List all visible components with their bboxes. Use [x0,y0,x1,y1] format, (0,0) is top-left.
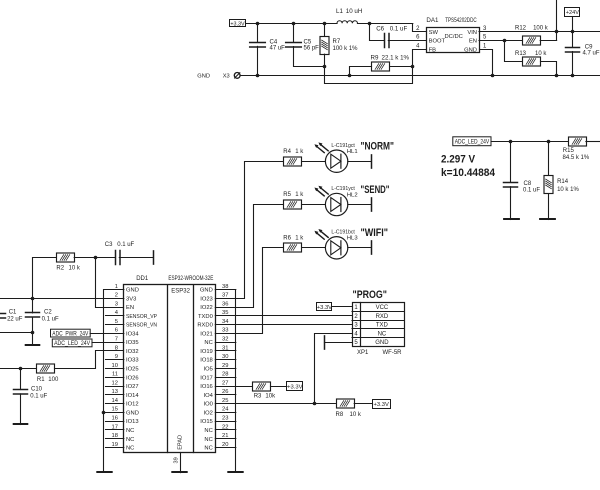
wire ADC_LED_24V net [491,141,568,143]
svg-text:L-C191bct: L-C191bct [331,229,355,235]
svg-text:26: 26 [222,389,228,395]
wire R1 left [0,368,36,370]
wire R13 right to GND rail [541,62,557,76]
svg-text:0.1 uF: 0.1 uF [523,187,540,193]
svg-text:IO4: IO4 [203,393,213,399]
wire FB loop [325,50,427,84]
svg-text:+3.3V: +3.3V [374,402,389,408]
svg-text:NC: NC [126,437,134,443]
wire C5 top lead [293,23,295,42]
svg-text:R7: R7 [333,39,341,45]
svg-text:19: 19 [112,442,118,448]
wire R4 to HL1 [302,161,326,163]
node rail/C4 [256,22,260,26]
inductor L1 [337,21,357,24]
connector XP1 WF-5R [353,303,405,347]
svg-text:GND: GND [464,47,477,53]
svg-text:TPS54202DDC: TPS54202DDC [445,18,477,24]
node FB/R9 [411,65,415,69]
node EN/R13 [503,39,507,43]
pin 37 IO23 [215,298,236,300]
ground below R14 [540,218,555,220]
svg-text:ESP32-WROOM-32E: ESP32-WROOM-32E [168,276,213,282]
node rail/C5 [292,22,296,26]
connector row line [352,337,404,339]
svg-text:IO27: IO27 [126,384,139,390]
node GND/R13 [555,74,559,78]
wire NC pin4 down to IO0 net [315,334,353,404]
svg-text:IO25: IO25 [126,367,139,373]
pin 39 EPAD [180,453,182,473]
svg-text:IO26: IO26 [126,375,139,381]
svg-text:SW: SW [429,30,439,36]
svg-text:3V3: 3V3 [126,296,136,302]
svg-text:+3.3V: +3.3V [317,305,332,311]
wire DA1 GND pin to rail [480,50,493,76]
svg-text:29: 29 [222,363,228,369]
svg-text:X3: X3 [223,73,230,79]
svg-text:WF-5R: WF-5R [383,350,403,356]
svg-text:C10: C10 [31,386,43,392]
connector row line [352,320,404,322]
wire pin38 GND down right side [216,290,236,473]
node 3V3/C2/R2 [31,297,35,301]
svg-text:NC: NC [126,446,134,452]
connector row line [352,328,404,330]
wire C4 bottom lead [257,46,259,75]
net stub bar C3 [153,251,155,264]
power flag +3.3V at PROG VCC [317,303,333,312]
svg-text:L-C191gct: L-C191gct [331,143,355,149]
power flag +24V [565,8,580,17]
node L1/C6 [368,22,372,26]
wire HL3 cathode out [348,247,371,249]
svg-text:R6: R6 [283,235,291,241]
pin 13 IO14 [106,394,124,396]
pin 32 NC [215,342,236,344]
wire C4 top lead [257,23,259,42]
wire +3.3V rail top [246,23,338,25]
wire flag to VCC pin1 [332,306,352,308]
net label ADC_LED_24V (left) [52,339,92,347]
wire +24V down through VIN to C9 [572,17,574,47]
pin 16 IO13 [106,421,124,423]
node C2 bottom [31,331,35,335]
svg-text:C1: C1 [9,310,17,316]
svg-text:IO0: IO0 [203,402,212,408]
wire R6 to HL3 [302,247,326,249]
resistor R4 [284,157,302,166]
svg-text:2.297 V: 2.297 V [441,153,476,165]
svg-text:"WIFI": "WIFI" [361,227,389,239]
pin 24 IO2 [215,412,236,414]
svg-text:23: 23 [222,416,228,422]
resistor R3 [253,382,271,391]
wire EN to R12 [479,40,522,42]
svg-text:10 k: 10 k [350,412,362,418]
svg-text:15: 15 [112,407,118,413]
svg-text:"SEND": "SEND" [361,184,390,196]
svg-text:GND: GND [126,410,139,416]
wire VIN line [479,31,600,33]
svg-text:TXD: TXD [376,323,389,329]
capacitor C9 [566,48,580,53]
chip inner divider left [167,285,169,453]
svg-text:HL1: HL1 [347,149,358,155]
svg-text:BOOT: BOOT [429,39,446,45]
pin 17 NC [106,429,124,431]
svg-text:0.1 uF: 0.1 uF [390,25,408,32]
ground below EPAD [172,471,186,473]
resistor R15 [569,137,587,146]
svg-text:L1: L1 [336,8,343,15]
pin 1 GND [106,289,124,291]
pin 19 NC [106,447,124,449]
wire net from ESP32 up to R6 [236,248,284,334]
svg-text:10 uH: 10 uH [346,8,363,15]
node VIN/+24V [571,30,575,34]
svg-text:37: 37 [222,293,228,299]
svg-text:36: 36 [222,301,228,307]
svg-text:NC: NC [204,428,212,434]
pin 38 GND [215,289,236,291]
pin 22 NC [215,429,236,431]
svg-text:+3.3V: +3.3V [287,384,302,390]
svg-text:IO5: IO5 [203,367,212,373]
power flag +3.3V at R8 [373,400,391,409]
node R7/C5/FB-loop [323,65,327,69]
net label ADC_LED_24V (right) [453,137,491,146]
svg-text:R14: R14 [557,179,569,185]
svg-text:1 k: 1 k [295,192,304,198]
wire C3 right [119,257,153,259]
svg-text:27: 27 [222,380,228,386]
wire TXD0 pin35 to PROG RXD [215,315,352,317]
net stub bar NORM [371,155,373,168]
wire HL1 cathode out [348,161,371,163]
svg-text:8: 8 [115,345,118,351]
wire C5 bottom to R7 bottom [294,47,325,67]
power flag +3.3V output rail [230,20,246,28]
svg-text:11: 11 [112,372,118,378]
node rail/R7 [323,22,327,26]
wire C10 bottom lead [20,394,22,425]
net stub bar SEND [371,198,373,211]
ground left of ESP32 [97,471,111,473]
node pin15 GND [102,411,106,415]
node R14 [547,140,551,144]
svg-text:7: 7 [115,337,118,343]
svg-text:47 uF: 47 uF [270,46,286,52]
pin 27 IO16 [215,386,236,388]
svg-text:100 k: 100 k [533,26,549,32]
wire C6 to BOOT [388,40,426,42]
wire R7 bottom lead [324,54,326,66]
svg-text:31: 31 [222,345,228,351]
svg-text:22 uF: 22 uF [7,316,23,322]
wire net from ESP32 up to R5 [236,205,284,308]
pin 36 IO22 [215,307,236,309]
svg-text:R3: R3 [254,394,262,400]
svg-text:33: 33 [222,328,228,334]
pin 10 IO25 [106,368,124,370]
svg-text:100: 100 [48,377,59,383]
svg-text:SENSOR_VN: SENSOR_VN [126,323,157,329]
wire net from ESP32 up to R4 [236,162,284,299]
ground below C2 [26,344,40,346]
svg-text:RXD: RXD [376,314,389,320]
svg-text:GND: GND [375,340,389,346]
svg-text:16: 16 [112,416,118,422]
pin 31 IO19 [215,350,236,352]
svg-text:9: 9 [115,354,118,360]
capacitor C2 [26,313,40,318]
resistor R9 [372,62,390,71]
IC DD1 ESP32-WROOM-32E [124,285,216,453]
svg-text:IO23: IO23 [200,296,213,302]
pin 5 SENSOR_VN [106,324,124,326]
svg-text:IO16: IO16 [200,384,213,390]
node VIN/R12 [555,30,559,34]
svg-text:24: 24 [222,407,229,413]
wire C8 top lead [510,141,512,182]
LED HL3 L-C191bct [314,229,347,259]
svg-text:R4: R4 [283,149,291,155]
svg-text:IO18: IO18 [200,358,213,364]
capacitor C10 [14,390,28,395]
capacitor C5 [286,43,302,48]
svg-text:0.1 uF: 0.1 uF [42,316,59,322]
node GND/DA1 pin1 [491,74,495,78]
svg-text:XP1: XP1 [357,350,369,356]
svg-text:NC: NC [378,331,387,337]
svg-text:GND: GND [200,288,213,294]
svg-text:10 k: 10 k [535,51,547,57]
svg-text:28: 28 [222,372,228,378]
svg-text:C2: C2 [44,310,52,316]
svg-text:GND: GND [126,288,139,294]
wire C6 branch [370,24,385,41]
svg-text:100 k 1%: 100 k 1% [333,46,359,52]
wire R5 to HL2 [302,204,326,206]
svg-text:IO17: IO17 [200,375,213,381]
node R1/C10 [19,367,23,371]
wire pin1 GND down left side [104,290,124,473]
svg-text:IO14: IO14 [126,393,139,399]
svg-text:C3: C3 [105,242,113,248]
svg-text:14: 14 [112,398,119,404]
pin 11 IO26 [106,377,124,379]
pin 29 IO5 [215,368,236,370]
net stub bar PROG GND [324,336,326,349]
LED HL2 L-C191yct [314,186,347,216]
svg-text:HL2: HL2 [347,192,358,198]
pin 12 IO27 [106,386,124,388]
capacitor C1 [0,314,6,319]
node C8 [509,140,513,144]
resistor R5 [284,200,302,209]
svg-text:DD1: DD1 [136,276,149,282]
connector divider [360,303,362,347]
wire R12 right [540,40,556,42]
wire C8 bottom lead [510,187,512,220]
wire GND link C1-C2 [0,332,32,334]
svg-text:R1: R1 [37,377,45,383]
pin 18 NC [106,438,124,440]
svg-text:IO33: IO33 [126,358,139,364]
pin 9 IO33 [106,359,124,361]
wire C9 bottom [572,52,574,76]
svg-text:"PROG": "PROG" [353,289,388,301]
wire R14 bottom lead [548,194,550,220]
svg-text:22: 22 [222,424,228,430]
pin 15 GND [106,412,124,414]
resistor R6 [284,243,302,252]
wire ADC_PWR_24V to pin 6 [90,333,124,335]
svg-text:R15: R15 [563,148,575,154]
wire R14 top lead [548,141,550,176]
pin 4 SENSOR_VP [106,315,124,317]
resistor R8 [337,399,355,408]
wire R9 right lead [389,66,413,68]
svg-text:EN: EN [469,39,477,45]
svg-text:3: 3 [115,301,118,307]
wire IO0 pin25 to R8 [215,403,335,405]
resistor R1 [37,364,55,373]
wire EN down to R13 [505,41,523,62]
svg-text:L-C191yct: L-C191yct [331,186,355,192]
capacitor C4 [250,43,266,48]
wire 3V3 rail to ESP32 pin 2 [0,298,124,300]
svg-text:SENSOR_VP: SENSOR_VP [126,314,157,320]
svg-text:22.1 k 1%: 22.1 k 1% [382,54,410,61]
svg-text:0.1 uF: 0.1 uF [30,394,47,400]
svg-text:39: 39 [174,457,180,463]
svg-text:DC/DC: DC/DC [445,34,463,40]
node GND/C9 [571,74,575,78]
svg-text:NC: NC [204,437,212,443]
svg-text:IO32: IO32 [126,349,139,355]
wire C2 top lead [32,298,34,313]
svg-text:2: 2 [115,293,118,299]
resistor R7 [320,37,329,55]
svg-text:IO15: IO15 [200,419,213,425]
wire R9 left to GND rail [350,67,372,76]
pin 20 NC [215,447,236,449]
svg-text:ESP32: ESP32 [171,289,190,295]
connector row line [352,311,404,313]
svg-text:0.1 uF: 0.1 uF [117,242,134,248]
svg-text:IO12: IO12 [126,402,139,408]
svg-text:ADC_LED_24V: ADC_LED_24V [455,140,490,146]
wire C2 bottom lead [32,317,34,345]
svg-text:4.7 uF: 4.7 uF [583,50,600,56]
wire vertical to top edge [556,0,558,40]
wire GND pin5 stub [325,342,353,344]
svg-text:EPAD: EPAD [178,435,184,450]
svg-text:R9: R9 [371,54,379,61]
svg-text:NC: NC [126,428,134,434]
svg-text:GND: GND [197,73,210,79]
svg-text:DA1: DA1 [426,17,439,24]
chip inner divider right [193,285,195,453]
svg-text:56 pF: 56 pF [304,46,320,52]
wire R8 to flag [354,403,372,405]
wire RXD0 pin34 to PROG TXD [215,324,352,326]
svg-text:6: 6 [115,328,118,334]
wire R15 right to edge [586,141,600,143]
svg-text:IO35: IO35 [126,340,139,346]
svg-text:84.5 k 1%: 84.5 k 1% [563,155,590,161]
pin 26 IO4 [215,394,236,396]
pin 23 IO15 [215,421,236,423]
capacitor C8 [504,183,518,188]
svg-text:13: 13 [112,389,118,395]
svg-text:IO2: IO2 [203,410,212,416]
svg-text:RXD0: RXD0 [197,323,212,329]
pin 21 NC [215,438,236,440]
pin 33 IO21 [215,333,236,335]
svg-text:IO22: IO22 [200,305,213,311]
node IO0/PROG pin4 [313,402,317,406]
wire IO16 pin27 to R3 [236,386,254,388]
svg-text:12: 12 [112,380,118,386]
svg-text:17: 17 [112,424,118,430]
pin 30 IO18 [215,359,236,361]
svg-text:C6: C6 [376,25,384,32]
power flag +3.3V at R3 [287,382,303,391]
ground below C8 [504,218,519,220]
svg-text:NC: NC [204,446,212,452]
node GND/R9 [348,74,352,78]
wire pin15 stub to GND vertical [104,412,124,414]
svg-text:10 k: 10 k [69,266,81,272]
svg-text:18: 18 [112,433,118,439]
svg-text:VCC: VCC [376,305,389,311]
svg-text:+24V: +24V [566,10,579,16]
resistor R12 [523,36,541,45]
svg-text:30: 30 [222,354,228,360]
resistor R2 [57,253,75,262]
svg-text:20: 20 [222,442,228,448]
wire R1 right up to IO32 pin 8 [55,351,124,369]
wire rail up to R2 [33,258,57,299]
svg-text:FB: FB [429,47,437,53]
svg-text:R2: R2 [56,266,64,272]
svg-text:k=10.44884: k=10.44884 [441,167,496,179]
wire into SW pin [413,24,427,32]
ground right of ESP32 [228,471,242,473]
resistor R13 [523,57,541,66]
wire R2 right to C3 [74,257,115,259]
svg-text:R13: R13 [515,51,527,57]
pin 28 IO17 [215,377,236,379]
svg-text:1 k: 1 k [295,235,304,241]
ground below C10 [14,423,28,425]
wire HL2 cathode out [348,204,371,206]
svg-text:HL3: HL3 [347,236,359,242]
svg-text:R12: R12 [515,26,527,32]
net label ADC_PWR_24V [51,329,91,337]
node GND/C4 [256,74,260,78]
svg-text:38: 38 [222,284,228,290]
wire GND rail [240,75,600,77]
net stub bar WIFI [371,241,373,254]
svg-text:R8: R8 [336,412,344,418]
wire L1 to SW corner [358,23,413,25]
op-amp U DA1 TPS54202DDC converter box [427,28,480,53]
LED HL1 L-C191gct [314,142,347,172]
